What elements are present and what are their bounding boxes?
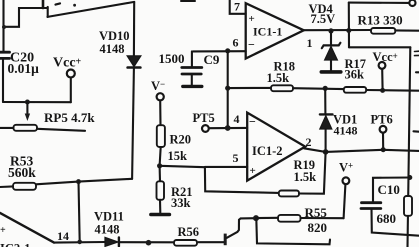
wire R55 leads [256, 217, 278, 219]
wire R20 bottom lead [160, 147, 161, 166]
transistor collector lead [227, 218, 256, 238]
wire vertical x79 down [79, 182, 80, 242]
wire C10 bottom [372, 209, 419, 236]
power rail right side [408, 47, 411, 247]
svg-text:33k: 33k [171, 196, 191, 210]
resistor R13 [371, 28, 395, 34]
terminal Vcc+ right circle [379, 62, 386, 69]
terminal top right circle [409, 0, 415, 6]
wire rail x134 upper [133, 2, 135, 56]
terminal V+ circle [343, 177, 350, 184]
resistor R18 [271, 85, 293, 91]
node junction blob [146, 240, 152, 246]
svg-text:−: − [249, 115, 256, 129]
wire R13 right lead [395, 29, 419, 31]
wire Vcc stub [381, 69, 383, 91]
node junction R53 wire [76, 179, 81, 184]
wire vertical x227 [227, 51, 229, 128]
wire top rail [349, 2, 409, 4]
wire rail x133 lower [132, 69, 134, 179]
terminal Vcc+ circle [67, 70, 75, 78]
node junction x79 bottom [77, 240, 82, 245]
svg-text:V+: V+ [339, 161, 353, 175]
resistor R56 [174, 240, 197, 246]
svg-text:14: 14 [57, 229, 69, 243]
wire corner down to R19 [205, 167, 279, 193]
svg-text:6: 6 [233, 36, 239, 50]
node junction pin4 [225, 125, 231, 131]
resistor R on rail [404, 196, 412, 216]
node junction R18 [225, 86, 230, 91]
node junction RP5 wiper [25, 100, 30, 105]
capacitor C20 [0, 52, 10, 58]
wire PT6 stub [382, 133, 384, 150]
op-amp IC2 (cut off bottom-left) [0, 213, 54, 243]
resistor R17 [344, 87, 366, 93]
wire left vertical above C20 [2, 0, 4, 52]
node junction output wire x349 [346, 28, 351, 33]
wire output IC1-2 [304, 148, 419, 152]
wire R17 right [366, 89, 419, 92]
diode VD10 [127, 56, 140, 68]
svg-text:36k: 36k [345, 68, 365, 82]
svg-text:C9: C9 [204, 52, 220, 67]
wire R18 left [228, 87, 271, 89]
node junction R55 left [253, 215, 259, 221]
node junction rail top C10 [407, 175, 412, 180]
svg-text:VD11: VD11 [94, 210, 124, 224]
capacitor C9 [191, 51, 193, 66]
ground R21 [151, 213, 170, 217]
node junction pin6 [225, 48, 230, 53]
wire IC2 output [54, 241, 105, 244]
wire VD11 to R56 [119, 241, 173, 243]
svg-text:+: + [249, 13, 255, 25]
svg-text:R55: R55 [305, 205, 328, 220]
wire pin 6 [193, 50, 246, 52]
svg-text:4148: 4148 [100, 42, 125, 56]
svg-text:680: 680 [377, 211, 397, 226]
wire divider to pin5 [160, 166, 205, 167]
svg-text:560k: 560k [8, 165, 36, 180]
svg-text:C10: C10 [378, 182, 400, 197]
wire RP5 left lead [0, 127, 14, 129]
svg-text:820: 820 [308, 220, 328, 235]
wire R56 right lead [198, 241, 224, 243]
svg-text:Vcc+: Vcc+ [373, 50, 398, 64]
terminal PT5 circle [202, 125, 209, 132]
svg-text:4: 4 [234, 112, 240, 126]
resistor R21 [159, 166, 161, 182]
svg-text:RP5 4.7k: RP5 4.7k [44, 110, 95, 125]
wire op-amp edge vertical x47 [47, 7, 49, 17]
potentiometer RP5 body [14, 125, 38, 131]
svg-text:0.01μ: 0.01μ [8, 61, 40, 76]
wire tick right edge y131 [414, 130, 419, 132]
svg-text:−: − [248, 38, 255, 52]
svg-text:7.5V: 7.5V [311, 12, 336, 26]
zener diode VD4 [322, 31, 341, 70]
node junction VD1 top [323, 86, 328, 91]
svg-text:4148: 4148 [95, 223, 120, 237]
transistor bar [224, 234, 227, 246]
svg-text:1500: 1500 [159, 51, 185, 66]
wire Vcc horizontal top [349, 46, 410, 48]
mark dashes right edge [415, 50, 419, 52]
svg-text:IC1-1: IC1-1 [253, 25, 282, 39]
node junction left edge [2, 25, 6, 29]
mark top edge small [56, 3, 61, 4]
op-amp IC1-2 [247, 113, 305, 181]
ground C9 [183, 85, 202, 88]
wire vertical x349 [348, 3, 350, 48]
svg-text:R56: R56 [178, 225, 200, 239]
wire pin 4 [209, 127, 247, 129]
wire diagonal op-amp bottom edge (cut off at top) [48, 2, 135, 17]
diode VD1 [320, 88, 333, 152]
resistor R19 [279, 191, 299, 197]
wire staircase top-left [4, 8, 48, 27]
svg-text:IC2-1: IC2-1 [0, 242, 31, 247]
terminal PT6 circle [380, 126, 387, 133]
svg-text:V−: V− [151, 79, 165, 93]
svg-text:PT6: PT6 [371, 113, 393, 127]
ground VD4 [321, 70, 341, 74]
wire V- stub [159, 101, 161, 126]
wire horizontal Vcc node [3, 101, 71, 103]
svg-text:1.5k: 1.5k [294, 170, 317, 184]
terminal V- circle [157, 93, 164, 100]
svg-text:7: 7 [234, 0, 240, 14]
svg-text:1: 1 [307, 36, 313, 50]
potentiometer RP5 wiper arrow [26, 102, 28, 115]
svg-text:R20: R20 [170, 133, 192, 147]
svg-text:2: 2 [306, 135, 312, 149]
resistor R55 [278, 215, 301, 222]
node junction VD1 bottom [323, 149, 329, 155]
svg-text:1.5k: 1.5k [267, 71, 290, 85]
resistor R20 [157, 125, 165, 147]
svg-text:R13 330: R13 330 [358, 13, 403, 28]
node junction VD4 [328, 28, 333, 33]
wire output IC1-1 [304, 29, 371, 31]
svg-text:PT5: PT5 [193, 111, 215, 125]
svg-text:IC1-2: IC1-2 [252, 144, 283, 158]
wire R53 left lead [0, 185, 13, 188]
wire tick right edge y72 [416, 71, 419, 73]
svg-text:+: + [0, 225, 6, 236]
wire Vcc terminal lead [70, 78, 72, 102]
wire R18-R17 middle [293, 87, 344, 90]
wire riser to V+ [344, 184, 346, 218]
node junction PT6 [381, 147, 386, 152]
capacitor C10 top wire [373, 178, 410, 202]
wire RP5 right lead [37, 129, 85, 131]
op-amp IC1-1 [246, 3, 304, 58]
svg-text:15k: 15k [168, 149, 188, 163]
wire left vertical below C20 [2, 58, 4, 102]
diode VD11 [105, 237, 119, 246]
svg-text:Vcc+: Vcc+ [53, 56, 82, 71]
wire junction down to bottom [256, 218, 330, 244]
svg-text:4148: 4148 [334, 124, 358, 138]
resistor R53 [13, 183, 36, 190]
capacitor C10 plates [361, 203, 381, 209]
wire R19 right + riser [299, 152, 326, 194]
node junction R20/R21 [157, 163, 162, 168]
node junction Vcc stub [380, 88, 385, 93]
svg-text:5: 5 [233, 151, 239, 165]
wire horizontal to R53 [36, 179, 132, 185]
wire pin 7 [230, 0, 246, 14]
wire stub top edge x43 [42, 0, 45, 8]
svg-text:+: + [250, 165, 256, 177]
wire pin 5 [205, 166, 247, 168]
